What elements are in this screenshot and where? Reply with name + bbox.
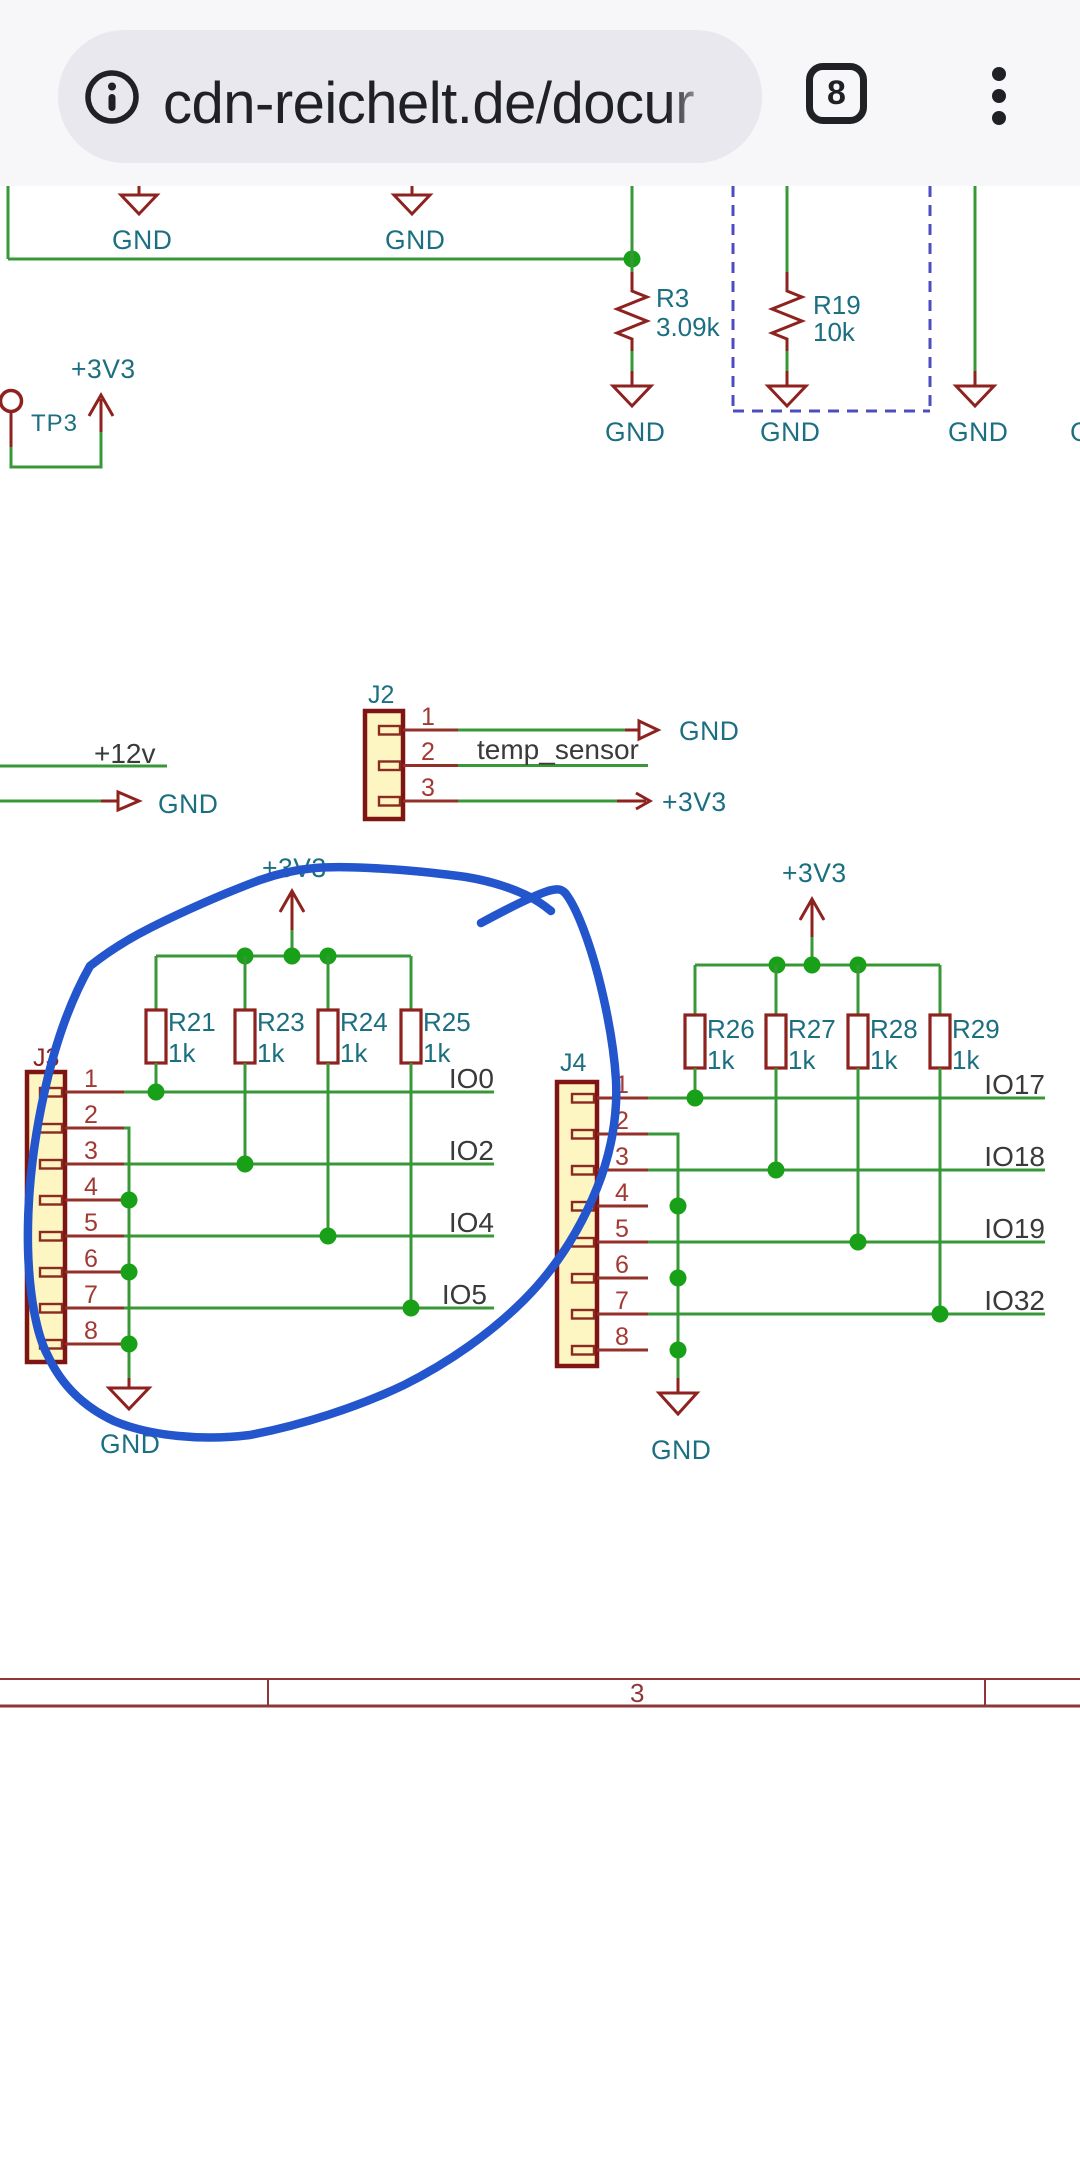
wire top horizontal [8, 258, 632, 261]
wire J2 pin3 [458, 800, 617, 803]
svg-text:1k: 1k [423, 1038, 451, 1068]
svg-text:3: 3 [615, 1143, 629, 1171]
title block bottom line [0, 1705, 1080, 1708]
svg-text:8: 8 [84, 1317, 98, 1345]
svg-text:IO19: IO19 [984, 1213, 1045, 1244]
svg-text:1k: 1k [257, 1038, 285, 1068]
svg-text:GND: GND [651, 1435, 711, 1465]
title block tick right [984, 1679, 986, 1706]
junction R26-pin1 [687, 1090, 704, 1107]
svg-text:5: 5 [615, 1215, 629, 1243]
svg-text:IO5: IO5 [442, 1279, 487, 1310]
J3 pin stubs [65, 1092, 124, 1344]
url pill [58, 30, 762, 163]
svg-text:2: 2 [421, 738, 435, 766]
resistor R28 [848, 965, 918, 1242]
svg-text:3: 3 [84, 1137, 98, 1165]
wire R19 top [786, 186, 789, 272]
power symbol +3V3 TP3 [71, 354, 136, 432]
ground symbol top-left [112, 186, 172, 255]
connector J4 [557, 1049, 597, 1366]
svg-text:R23: R23 [257, 1007, 305, 1037]
svg-text:R3: R3 [656, 283, 689, 313]
wire J3 pin7 IO5 [124, 1307, 494, 1310]
ground symbol top-2 [385, 186, 445, 255]
info icon [84, 69, 140, 125]
tab counter icon [806, 63, 867, 124]
junction R24-pin5 [320, 1228, 337, 1245]
junction J3 pin6 [121, 1264, 138, 1281]
svg-text:10k: 10k [813, 317, 856, 347]
wire J4 even pins to gnd [648, 1134, 678, 1378]
wire to GND label [0, 800, 101, 803]
wire J4 pin3 IO18 [648, 1169, 1045, 1172]
svg-text:IO2: IO2 [449, 1135, 494, 1166]
wire right bank bus [695, 964, 940, 967]
svg-text:R26: R26 [707, 1014, 755, 1044]
svg-text:+3V3: +3V3 [71, 354, 136, 384]
junction J4 pin6 [670, 1270, 687, 1287]
wire J3 pin3 IO2 [124, 1163, 494, 1166]
junction R28-pin5 [850, 1234, 867, 1251]
title block tick left [267, 1679, 269, 1706]
ground symbol J4 [651, 1378, 711, 1465]
svg-text:temp_sensor: temp_sensor [477, 734, 639, 765]
junction R25-pin7 [403, 1300, 420, 1317]
resistor R24 [318, 956, 388, 1236]
junction R21-pin1 [148, 1084, 165, 1101]
svg-text:4: 4 [615, 1179, 629, 1207]
svg-text:3: 3 [630, 1678, 644, 1708]
wire J4 pin7 IO32 [648, 1313, 1045, 1316]
svg-text:GND: GND [112, 225, 172, 255]
junction dots right bus [769, 957, 786, 974]
resistor R27 [766, 965, 836, 1170]
svg-text:3: 3 [421, 774, 435, 802]
svg-text:1k: 1k [952, 1045, 980, 1075]
menu dots [992, 67, 1006, 81]
svg-text:GND: GND [948, 417, 1008, 447]
ground symbol col3 [948, 371, 1008, 447]
svg-text:4: 4 [84, 1173, 98, 1201]
svg-text:6: 6 [84, 1245, 98, 1273]
svg-text:3.09k: 3.09k [656, 312, 721, 342]
svg-text:1k: 1k [788, 1045, 816, 1075]
svg-text:1: 1 [421, 703, 435, 731]
connector J2 [365, 681, 403, 819]
svg-text:IO4: IO4 [449, 1207, 494, 1238]
wire J2 pin2 [458, 764, 648, 767]
svg-text:GND: GND [760, 417, 820, 447]
url fade [667, 30, 762, 163]
J2 pin stubs [403, 730, 458, 801]
dashed annotation box [733, 186, 930, 411]
junction dots left bus [237, 948, 254, 965]
J4 pin pads [572, 1094, 594, 1355]
wire J4 pin1 IO17 [648, 1097, 1045, 1100]
svg-text:IO0: IO0 [449, 1063, 494, 1094]
blue pen annotation loop [28, 867, 616, 1437]
svg-text:7: 7 [84, 1281, 98, 1309]
svg-text:6: 6 [615, 1251, 629, 1279]
power arrow +3V3 J2 pin3 [617, 787, 727, 817]
J2 pin pads [379, 726, 400, 806]
hierarchical label GND left [101, 789, 218, 819]
svg-text:1: 1 [84, 1065, 98, 1093]
svg-text:5: 5 [84, 1209, 98, 1237]
J4 pin stubs [597, 1098, 648, 1350]
junction J3 pin8 [121, 1336, 138, 1353]
junction R23-pin3 [237, 1156, 254, 1173]
resistor R19 [772, 272, 861, 386]
svg-text:+3V3: +3V3 [782, 858, 847, 888]
browser top bar [0, 0, 1080, 186]
svg-text:7: 7 [615, 1287, 629, 1315]
resistor R23 [235, 956, 305, 1164]
svg-text:R28: R28 [870, 1014, 918, 1044]
J3 pin pads [40, 1088, 62, 1349]
wire left bank bus [156, 955, 411, 958]
junction R27-pin3 [768, 1162, 785, 1179]
title block top line [0, 1678, 1080, 1680]
J2 pin numbers [421, 703, 435, 802]
junction R29-pin7 [932, 1306, 949, 1323]
svg-text:TP3: TP3 [31, 410, 78, 437]
svg-text:R24: R24 [340, 1007, 388, 1037]
junction J4 pin8 [670, 1342, 687, 1359]
resistor R26 [685, 965, 755, 1098]
wire +12v [0, 765, 167, 768]
resistor R21 [146, 956, 216, 1092]
svg-text:IO17: IO17 [984, 1069, 1045, 1100]
svg-text:GND: GND [158, 789, 218, 819]
svg-text:R19: R19 [813, 290, 861, 320]
svg-text:GND: GND [1070, 417, 1080, 447]
ground symbol R3 [605, 386, 665, 447]
power symbol +3V3 right bank [782, 858, 847, 965]
resistor R3 [617, 272, 721, 386]
svg-text:IO32: IO32 [984, 1285, 1045, 1316]
node junction R3 top [624, 251, 641, 268]
resistor R25 [401, 956, 471, 1308]
connector J3 [27, 1044, 65, 1362]
svg-text:IO18: IO18 [984, 1141, 1045, 1172]
svg-text:R27: R27 [788, 1014, 836, 1044]
wire third gnd column [974, 186, 977, 371]
wire TP3 to +3V3 [11, 432, 101, 467]
junction J3 pin4 [121, 1192, 138, 1209]
svg-text:J4: J4 [560, 1049, 587, 1077]
wire J3 pin1 IO0 [124, 1091, 494, 1094]
J3 pin numbers [84, 1065, 98, 1345]
wire J2 pin1 [458, 729, 625, 732]
svg-text:1k: 1k [168, 1038, 196, 1068]
svg-text:J2: J2 [368, 681, 394, 709]
wire top-left vertical [7, 186, 10, 259]
junction J4 pin4 [670, 1198, 687, 1215]
J4 pin numbers [615, 1071, 629, 1351]
wire J3 even pins to gnd [124, 1128, 129, 1378]
svg-text:+3V3: +3V3 [662, 787, 727, 817]
ground symbol R19 [760, 386, 820, 447]
svg-text:2: 2 [84, 1101, 98, 1129]
svg-text:+12v: +12v [94, 738, 156, 769]
wire R3 top [631, 186, 634, 272]
wire J3 pin5 IO4 [124, 1235, 494, 1238]
hierarchical label GND J2 pin1 [625, 716, 739, 746]
ground symbol J3 [100, 1378, 160, 1459]
svg-text:GND: GND [385, 225, 445, 255]
test point TP3 [1, 391, 79, 448]
svg-text:1k: 1k [707, 1045, 735, 1075]
svg-text:R25: R25 [423, 1007, 471, 1037]
svg-text:1k: 1k [870, 1045, 898, 1075]
svg-text:R21: R21 [168, 1007, 216, 1037]
wire J4 pin5 IO19 [648, 1241, 1045, 1244]
power symbol +3V3 left bank [262, 853, 327, 956]
svg-text:GND: GND [679, 716, 739, 746]
url text [163, 30, 694, 163]
svg-text:1k: 1k [340, 1038, 368, 1068]
svg-text:8: 8 [615, 1323, 629, 1351]
svg-text:GND: GND [605, 417, 665, 447]
resistor R29 [930, 965, 1000, 1314]
svg-text:R29: R29 [952, 1014, 1000, 1044]
